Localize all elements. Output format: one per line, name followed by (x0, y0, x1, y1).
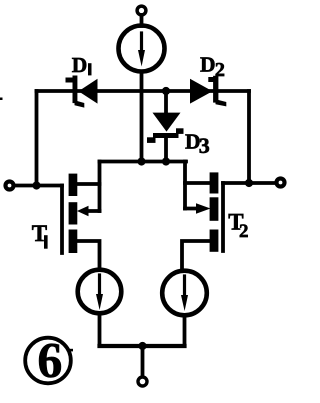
svg-text:D: D (200, 53, 216, 77)
terminal BOTTOM (138, 377, 147, 386)
junction dot left wire (32, 181, 40, 189)
junction dot bottom rail (138, 342, 146, 350)
T2 channel bars (210, 172, 219, 251)
junction dot drain rail center (137, 157, 145, 165)
current source I3 (162, 271, 207, 316)
T1 bulk stub with arrow (85, 209, 100, 213)
wire top horizontal diode line (37, 89, 250, 93)
wire right drop from D2 line (247, 91, 251, 183)
svg-text:2: 2 (239, 221, 249, 242)
current source I1 (119, 26, 165, 72)
terminal RIGHT (277, 179, 285, 187)
wire I1 bottom crossing node line down to drain rail (140, 72, 144, 162)
svg-text:3: 3 (199, 133, 210, 158)
junction dot D3 top (162, 87, 170, 95)
junction dot drain rail D3 (162, 157, 170, 165)
T2 bulk stub with arrow (185, 207, 199, 211)
wire left terminal to T1 gate (14, 184, 62, 188)
junction dot right wire (245, 179, 253, 187)
wire I3 to bottom rail (183, 316, 187, 347)
wire bottom rail (100, 344, 185, 348)
T1 drain riser (98, 162, 102, 212)
transistor T1 (62, 162, 100, 269)
label T1 (32, 221, 48, 249)
svg-text:2: 2 (215, 59, 225, 81)
T1 channel bars (69, 174, 78, 253)
wire left drop from D1 line (35, 91, 39, 186)
T2 drain riser (183, 162, 187, 209)
svg-text:6: 6 (37, 331, 62, 387)
T2 drain stub (185, 181, 210, 185)
diode D1 (66, 76, 98, 108)
T1 gate (60, 186, 64, 254)
current source I2 (78, 270, 122, 314)
diode D3 (147, 91, 184, 162)
terminal LEFT (6, 182, 14, 190)
diode D2 (190, 76, 226, 107)
figure number 6 circled (25, 331, 71, 387)
wire drain rail horizontal (100, 160, 187, 164)
T2 source stub (182, 241, 210, 270)
label D2 (200, 53, 225, 82)
T2 gate (221, 183, 225, 251)
label D1 (72, 53, 92, 77)
T1 source stub (77, 241, 100, 269)
label T2 (228, 210, 248, 243)
wire I2 to bottom rail (98, 314, 102, 347)
label D3 (185, 130, 210, 158)
speck artifact left edge (0, 98, 3, 101)
T1 drain stub (77, 182, 100, 186)
svg-text:D: D (72, 53, 88, 77)
wire top terminal to current source I1 (140, 15, 144, 26)
transistor T2 (182, 162, 223, 271)
terminal TOP (137, 6, 146, 15)
speck artifact right of 6 (69, 349, 74, 352)
wire right terminal to T2 gate (223, 181, 276, 185)
wire bottom rail to bottom terminal (141, 346, 145, 377)
